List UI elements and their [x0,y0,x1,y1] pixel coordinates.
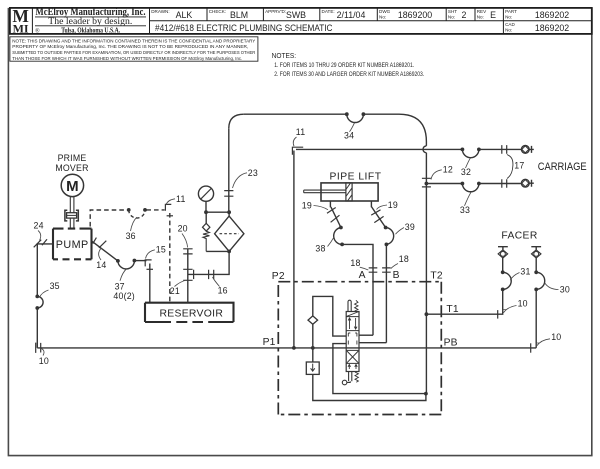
svg-text:No:: No: [448,14,455,19]
wire gauge tee horizontal [206,211,229,213]
fitting 10 tick T1 [497,310,499,319]
leader 19 left [314,206,329,210]
facer left QD diamond [498,250,507,258]
svg-text:Tulsa, Oklahoma U.S.A.: Tulsa, Oklahoma U.S.A. [61,27,120,34]
title block cell dividers [32,8,591,34]
svg-text:T2: T2 [430,270,442,281]
leader 37 [120,269,127,281]
wire suction down to reservoir [149,264,151,303]
node hose37 left [116,259,120,263]
svg-text:ALK: ALK [176,10,193,20]
motor shaft [70,197,74,229]
underline company name [35,16,146,18]
leader 32 [466,158,471,168]
quick disconnect QD carriage bottom circle [521,179,529,187]
svg-text:DATE:: DATE: [322,9,335,14]
svg-text:SHT: SHT [448,9,457,14]
svg-text:PB: PB [444,338,458,349]
notes list [272,53,425,78]
svg-text:PRIME: PRIME [58,153,87,163]
fitting tick near tee [193,270,195,279]
fitting 10 tick right [530,343,532,352]
override link [347,381,350,382]
wire A horizontal [342,244,373,335]
node hose30 bottom [534,288,538,292]
PIPE LIFT cylinder body [321,183,378,201]
relief valve arrow [311,364,315,372]
svg-text:CARRIAGE: CARRIAGE [538,161,587,173]
underline slogan [35,25,146,27]
cell small headers [151,9,517,32]
fitting X tick left [331,215,340,222]
left port diagonal hose end [331,207,341,228]
valve manual override circle [342,380,347,385]
wire A into valve [359,334,373,336]
wire check valve to filter bottom [206,250,229,252]
wire left down to bottom rail [36,308,38,348]
fitting 12 ticks [422,178,431,187]
svg-text:38: 38 [315,244,325,254]
manifold boundary dash-dot box [278,282,441,415]
big corner arc down [399,114,426,146]
leader 30 [545,283,559,290]
fitting X tick right [374,216,383,222]
leader 16 [213,277,220,287]
svg-text:No:: No: [477,14,484,19]
svg-text:1869200: 1869200 [398,10,432,20]
gauge G1 circle [198,186,213,201]
T2 riser down to manifold [425,153,427,394]
reservoir R1 box [145,303,234,322]
valve top pin [348,300,351,311]
svg-text:32: 32 [461,167,471,177]
fitting 19 tick left [327,208,336,214]
leader 10 left [41,348,45,355]
hose 34 loop [347,114,364,122]
relief valve RV1 stem [312,348,314,362]
wire B vertical [385,244,387,342]
svg-text:No:: No: [505,14,512,19]
svg-text:THAN THOSE FOR WHICH IT WAS FU: THAN THOSE FOR WHICH IT WAS FURNISHED WI… [12,56,242,62]
svg-text:19: 19 [302,200,312,210]
leader 15 [146,250,155,259]
svg-text:10: 10 [551,332,561,342]
QD carriage top diamond [522,146,529,153]
svg-text:DRAWN:: DRAWN: [151,9,169,14]
svg-text:®: ® [35,27,40,34]
svg-text:34: 34 [344,131,354,141]
svg-text:No:: No: [379,14,386,19]
hose 31 loop [503,272,512,289]
svg-text:PIPE LIFT: PIPE LIFT [330,171,382,182]
fitting 11 elbow glyph left [165,204,171,210]
wire pump outlet left [37,244,53,297]
leader 12 [431,170,442,180]
leader 19 right [377,205,388,210]
svg-text:2/11/04: 2/11/04 [337,10,366,20]
hose 37 loop [118,261,135,269]
wire line 33 carriage return [426,183,462,185]
svg-text:REV: REV [477,9,487,14]
svg-text:A: A [359,270,366,281]
fitting 11 elbow glyph at P2 top [292,147,303,155]
wire return horizontal to filter [188,251,229,274]
coupling right bracket [76,210,78,221]
leader 38 [328,238,334,247]
cylinder right port stub [370,201,372,207]
svg-text:SWB: SWB [286,10,306,20]
svg-text:24: 24 [34,220,44,230]
fitting 20 ticks [183,249,192,254]
svg-text:M: M [66,178,79,195]
LEADERS [38,123,559,356]
svg-text:10: 10 [39,356,49,366]
svg-text:30: 30 [560,285,570,295]
leader 18 right [391,264,398,269]
fitting 23 ticks [224,191,233,197]
NOTESAREA [10,37,424,78]
node hose32 right [477,148,481,152]
leader 10 right [536,339,550,346]
svg-text:35: 35 [50,281,60,291]
node hose33 right [477,182,481,186]
svg-text:23: 23 [248,168,258,178]
directional valve DV1 body [346,312,359,372]
node hose38 bottom [340,243,344,247]
node gauge tee left [204,210,208,214]
check valve CV1 spring [203,231,209,251]
piston hatching [346,183,352,201]
check valve CV2 upper wire to valve port 1 [313,296,346,336]
brace 17 [507,155,513,179]
leader 39 [396,228,405,235]
TITLEBLOCK [10,6,592,36]
leader 11 left [166,199,175,205]
node P2 at rail [292,346,296,350]
svg-text:17: 17 [514,161,524,171]
svg-text:16: 16 [218,286,228,296]
svg-text:37: 37 [115,281,125,291]
svg-text:DWG: DWG [379,9,391,14]
svg-text:NOTES:: NOTES: [272,53,297,60]
leader 35 [40,290,49,298]
hose 39 loop [386,228,394,245]
valve bottom ports marks [348,364,357,369]
wire hop over line 11 [423,146,426,153]
wire filter top to gauge tee [228,212,230,216]
wire T1 to facer [426,258,502,315]
fitting 10 ticks left [36,343,41,353]
leader 14 [99,248,102,260]
svg-text:1869202: 1869202 [535,23,569,33]
svg-text:APPRV'D:: APPRV'D: [265,9,286,14]
svg-text:NOTE: THIS DRAWING AND THE INF: NOTE: THIS DRAWING AND THE INFORMATION C… [12,38,256,44]
node T1 tee [425,312,429,316]
svg-text:#412/#618 ELECTRIC PLUMBING SC: #412/#618 ELECTRIC PLUMBING SCHEMATIC [155,23,333,33]
QD carriage bottom stub and tick [529,180,534,187]
leader 20 [182,234,188,248]
node hose38 top [339,226,343,230]
node hose32 left [461,148,465,152]
facer right QD stub and bar [531,247,541,250]
valve X crossing [347,351,358,363]
top return rail [244,113,347,115]
union 17 ticks bottom [502,179,507,188]
QD carriage bottom diamond [522,180,529,187]
node hose31 bottom [501,288,505,292]
check valve CV2 diamond [308,316,318,324]
leader 18 left [360,267,369,270]
title block frame [10,8,592,34]
cylinder piston [346,183,352,201]
node hose35 top [35,295,39,299]
facer left QD line nodes [501,270,505,274]
return tube line 20 [187,249,189,303]
filter F1 diamond [215,216,244,251]
motor M1 prime mover circle [61,174,83,196]
wire hose to fitting 15 [134,260,146,262]
svg-text:20: 20 [178,224,188,234]
svg-text:RESERVOIR: RESERVOIR [159,309,223,320]
leader 23 [233,173,248,188]
svg-text:No:: No: [505,27,512,32]
node hose37 right [133,259,137,263]
wire B into valve [359,342,386,344]
svg-text:CHECK:: CHECK: [209,9,226,14]
wire to union 17 top [479,148,522,150]
svg-text:2. FOR ITEMS 30 AND LARGER ORD: 2. FOR ITEMS 30 AND LARGER ORDER KIT NUM… [274,71,424,78]
fitting 14 X tick [99,241,106,248]
fitting 19 tick right [371,210,380,215]
facer left QD circle [501,252,506,257]
svg-text:14: 14 [96,260,106,270]
leader 21 [175,280,187,287]
node hose34 left [345,112,349,116]
svg-text:18: 18 [350,258,360,268]
leader 33 [465,192,472,206]
wire P2 riser [293,151,295,348]
svg-text:33: 33 [460,205,470,215]
leader 31 [510,273,519,281]
union 17 ticks top [502,145,507,154]
cell values [176,10,570,33]
svg-text:B: B [393,270,400,281]
wire line 11 carriage pressure [296,148,462,150]
top rail to right arc [363,113,399,115]
svg-text:39: 39 [405,222,415,232]
fitting 18 ticks A [369,268,378,272]
svg-text:MOVER: MOVER [55,163,88,173]
relief drain wire [313,374,426,400]
leader 11 right [293,137,296,146]
hose 35 loop [37,296,43,308]
node filter bottom [227,250,231,254]
node return tee right [227,210,231,214]
relief valve RV1 box [306,362,319,374]
dashed drain line 21 to reservoir [169,213,171,303]
valve box dividers [346,317,359,364]
svg-text:40(2): 40(2) [113,291,135,301]
node hose34 right [362,112,366,116]
right port diagonal hose end [372,207,386,228]
dashed wire to fitting 11 [146,209,164,211]
svg-text:CAD: CAD [505,22,515,27]
wire bottom rail P1 [37,347,536,349]
svg-text:15: 15 [156,245,166,255]
leader 36 [131,217,137,231]
svg-text:SUBMITTED TO OUTSIDE PARTIES F: SUBMITTED TO OUTSIDE PARTIES FOR EXAMINA… [12,50,255,56]
gauge stem [205,201,207,212]
node hose39 bottom [385,243,389,247]
fitting 18 ticks B [382,268,391,272]
QD carriage top stub and tick [529,146,534,153]
cylinder left port stub [329,201,331,207]
node 33 tee [425,182,429,186]
svg-text:10: 10 [518,299,528,309]
leader 34 [350,123,355,132]
hose 32 loop [462,149,479,157]
leader 24 [38,231,41,241]
quick disconnect QD carriage top circle [521,146,529,154]
svg-text:21: 21 [170,286,180,296]
pump P1 box [53,229,92,260]
svg-text:MI: MI [13,22,29,36]
node check branch at rail [311,346,315,350]
svg-text:P1: P1 [263,337,276,348]
fitting 15 elbow glyph [145,260,151,267]
valve solenoid diagonal [346,312,359,317]
hose 33 loop [462,184,479,192]
svg-text:T1: T1 [446,304,458,315]
svg-text:31: 31 [520,267,530,277]
svg-text:19: 19 [388,200,398,210]
cylinder rod [304,190,346,193]
leader 10 mid [503,306,517,313]
svg-text:11: 11 [176,194,186,204]
hose 30 loop [536,272,545,289]
check valve CV2 stem lower [312,324,314,348]
svg-text:18: 18 [399,254,409,264]
fitting 16 ticks [209,270,214,279]
node hose39 top [384,226,388,230]
check valve CV1 stem [205,212,207,223]
valve drain U wire [333,344,426,394]
fitting 24 tick marks [34,240,42,248]
facer right QD circle [534,252,539,257]
svg-text:FACER: FACER [501,231,537,242]
svg-text:1. FOR ITEMS 10 THRU 29 ORDER: 1. FOR ITEMS 10 THRU 29 ORDER KIT NUMBER… [274,62,414,69]
wire to union 17 bottom [479,183,522,185]
svg-text:BLM: BLM [230,10,248,20]
valve center ports marks [348,333,357,345]
wire facer right riser [535,258,537,348]
svg-text:PUMP: PUMP [56,239,89,251]
svg-text:P2: P2 [272,271,285,282]
return riser 23 [228,128,230,212]
fitting tick at pump outlet [93,238,97,244]
svg-text:PART: PART [505,9,517,14]
filter element dashed [220,233,240,235]
fitting 21 ticks [183,269,192,280]
svg-text:11: 11 [296,127,306,137]
facer left QD stub and bar [498,247,508,250]
check valve CV1 diamond [203,223,210,231]
node hose33 left [461,182,465,186]
valve bottom pin [349,372,352,382]
node hose35 bottom [35,306,39,310]
svg-text:PROPERTY OF McElroy Manufactur: PROPERTY OF McElroy Manufacturing, Inc. … [12,44,248,50]
svg-text:E: E [490,10,496,20]
valve top spring [355,300,358,311]
svg-text:2: 2 [462,10,467,20]
valve arrows box2 [348,318,357,329]
svg-text:12: 12 [443,164,453,174]
facer right QD diamond [532,250,541,258]
coupling hub [67,213,77,218]
valve bottom spring [355,372,358,382]
gauge needle [201,189,211,199]
svg-text:36: 36 [126,231,136,241]
facer right QD line nodes [534,270,538,274]
coupling left bracket [65,210,67,221]
hose 38 loop [334,228,342,245]
wire pump suction diagonal hose 14 [92,241,118,261]
proprietary note box [10,37,258,61]
case drain dashed from pump top [90,210,127,227]
svg-text:1869202: 1869202 [535,10,569,20]
node drain join [424,392,428,396]
node hose36 left [127,208,131,212]
node hose36 right [143,208,147,212]
hose 36 loop dashed [129,210,145,218]
return riser corner arc [229,114,244,128]
